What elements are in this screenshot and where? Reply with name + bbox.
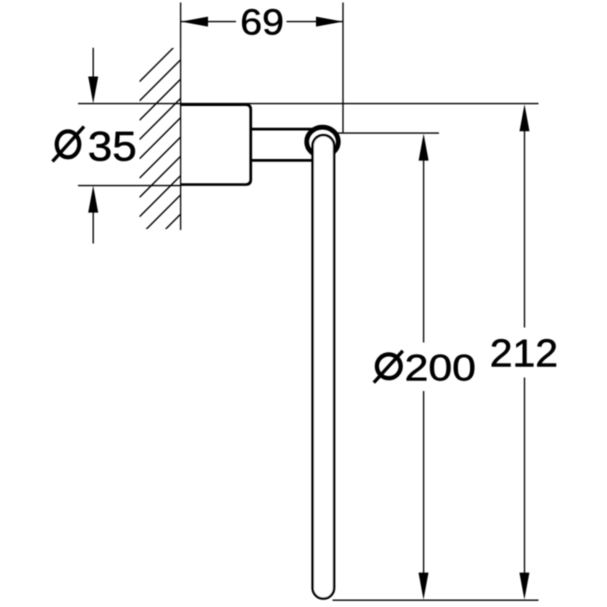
diameter symbol of 35 (slash) — [53, 127, 85, 162]
svg-text:35: 35 — [88, 123, 137, 170]
towel ring band — [313, 135, 335, 598]
arrowhead 212 up — [520, 104, 530, 131]
dimension line diameter-35 lower tail — [92, 211, 94, 244]
arrowhead diameter-200 up — [419, 134, 429, 161]
pivot knuckle ring — [307, 127, 339, 156]
arrowhead diameter-35 up — [88, 186, 98, 213]
diameter symbol of 200 (circle) — [377, 354, 401, 378]
extension line diameter-35 bottom — [78, 185, 181, 187]
wall face line — [180, 48, 182, 230]
arrowhead diameter-200 down — [419, 573, 429, 600]
post arm top line — [251, 128, 316, 131]
svg-text:69: 69 — [240, 3, 284, 43]
arrowhead 69 left — [181, 17, 208, 27]
extension line bottom (ring bottom, shared by diameter 200 and 212) — [333, 599, 539, 601]
diameter symbol of 35 (circle) — [57, 131, 80, 157]
wall hatching — [140, 40, 182, 275]
extension line top (plate top, shared by diameter 35 and 212) — [78, 103, 539, 105]
diameter symbol of 200 (slash) — [374, 351, 403, 383]
dimension line 212 — [524, 131, 526, 573]
extension line 69 left (wall face up to top) — [180, 3, 182, 49]
arrowhead diameter-35 down — [88, 77, 98, 104]
extension line diameter-200 top — [335, 132, 439, 134]
dimension line diameter-35 upper tail — [92, 48, 94, 78]
dimension line 69 — [181, 21, 343, 23]
arrowhead 69 right — [316, 17, 343, 27]
svg-text:212: 212 — [490, 333, 558, 376]
extension line 69 right — [342, 3, 344, 134]
rosette wall plate — [181, 105, 251, 185]
arrowhead 212 down — [519, 573, 529, 600]
dimension line diameter-200 — [423, 160, 425, 573]
svg-text:200: 200 — [405, 347, 476, 389]
post arm bottom line — [251, 159, 316, 162]
